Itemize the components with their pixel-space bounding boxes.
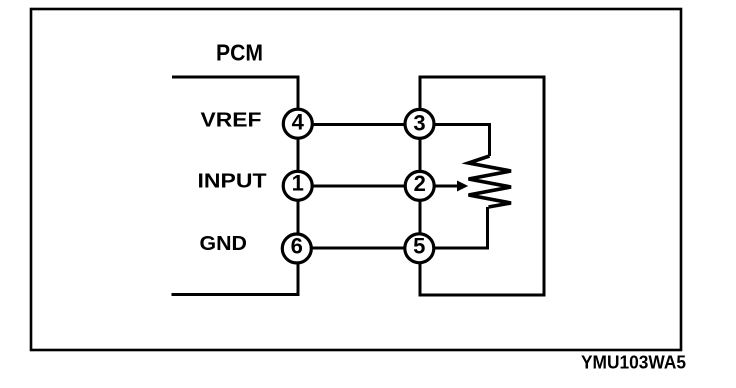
figure code YMU103WA5 bbox=[581, 353, 686, 373]
svg-text:PCM: PCM bbox=[216, 40, 263, 66]
wiper arrow from pin2 bbox=[420, 181, 468, 192]
resistor R1 (sensor element) bbox=[469, 156, 512, 207]
svg-text:3: 3 bbox=[413, 110, 425, 135]
label INPUT bbox=[198, 171, 267, 193]
svg-text:1: 1 bbox=[292, 170, 304, 195]
pin 5 bbox=[405, 234, 434, 263]
pin 1 bbox=[283, 170, 312, 200]
wire VREF pin4 to pin3 bbox=[298, 123, 420, 126]
pin 4 bbox=[283, 109, 312, 138]
wire pin5 to resistor bottom bbox=[420, 207, 488, 248]
svg-text:2: 2 bbox=[414, 171, 426, 196]
wire pin3 to resistor top bbox=[420, 125, 490, 157]
label PCM bbox=[216, 40, 263, 66]
svg-text:4: 4 bbox=[292, 110, 305, 135]
svg-text:VREF: VREF bbox=[201, 109, 262, 131]
wire GND pin6 to pin5 bbox=[298, 247, 420, 250]
PCM connector outline bbox=[172, 77, 299, 295]
wire INPUT pin1 to pin2 bbox=[298, 185, 420, 188]
sensor connector box bbox=[420, 77, 544, 295]
pin 3 bbox=[405, 109, 434, 138]
pin 2 bbox=[405, 171, 434, 200]
label VREF bbox=[201, 109, 262, 131]
svg-text:6: 6 bbox=[291, 234, 303, 259]
pin 6 bbox=[282, 234, 311, 264]
svg-text:GND: GND bbox=[200, 233, 248, 255]
svg-text:5: 5 bbox=[413, 234, 425, 259]
svg-text:INPUT: INPUT bbox=[198, 171, 267, 193]
label GND bbox=[200, 233, 248, 255]
svg-text:YMU103WA5: YMU103WA5 bbox=[581, 353, 686, 373]
border frame bbox=[31, 9, 681, 350]
